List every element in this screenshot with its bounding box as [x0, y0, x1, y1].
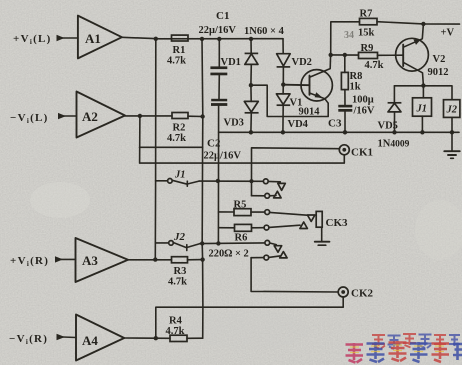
- transistor V1: [285, 55, 333, 118]
- wire C2 bottom vertical down to J2 row: [217, 106, 219, 244]
- watermark logo: [346, 333, 462, 363]
- wire row6 down to CK2 center: [251, 258, 338, 292]
- input +Vi(L): [13, 33, 78, 46]
- contact row 6 wire: [251, 257, 264, 259]
- wire R4 to summing vertical: [187, 337, 203, 339]
- contact row4 circle: [264, 225, 269, 230]
- resistor R9: [359, 43, 384, 71]
- jack CK1: [339, 145, 373, 159]
- node J2 row summing vertical: [200, 241, 204, 245]
- svg-text:A4: A4: [82, 333, 98, 348]
- node V2 emitter top: [421, 22, 425, 26]
- wire row 4: [252, 227, 265, 229]
- svg-text:A2: A2: [82, 109, 98, 124]
- op-amp A1: [78, 16, 122, 59]
- svg-text:VD4: VD4: [288, 119, 309, 130]
- switch J2: [155, 231, 200, 251]
- svg-text:C3: C3: [328, 118, 342, 130]
- svg-text:VD5: VD5: [378, 121, 398, 132]
- svg-text:100μ: 100μ: [352, 95, 374, 106]
- svg-text:R9: R9: [361, 43, 374, 54]
- capacitor C1: [210, 39, 227, 99]
- resistor R1: [167, 35, 188, 66]
- svg-text:4.7k: 4.7k: [168, 277, 187, 288]
- contact row6 circle: [264, 255, 269, 260]
- node A1 out: [154, 37, 158, 41]
- diode VD5: [378, 86, 410, 150]
- svg-text:4.7k: 4.7k: [166, 326, 185, 337]
- resistor R3: [168, 257, 188, 288]
- transistor V2: [396, 24, 449, 86]
- svg-text:+V: +V: [441, 28, 455, 39]
- wire A2 branch down: [140, 116, 345, 163]
- node VD2-VD4 junction: [281, 82, 285, 86]
- svg-text:J2: J2: [173, 231, 186, 243]
- svg-text:1N60 × 4: 1N60 × 4: [244, 26, 285, 37]
- node rail J2: [450, 130, 454, 134]
- wire contact row 1: [199, 180, 263, 182]
- input -Vi(L): [10, 112, 77, 125]
- node rail J1: [420, 130, 424, 134]
- wire R9 row: [331, 54, 359, 56]
- switch J1: [156, 170, 199, 187]
- svg-text:4.7k: 4.7k: [167, 133, 186, 144]
- svg-text:/16V: /16V: [353, 106, 375, 117]
- node A3 out: [153, 257, 157, 261]
- wire CK2 shell loop to A4 node: [156, 297, 343, 338]
- node A4 out: [154, 336, 158, 340]
- op-amp A3: [76, 238, 129, 282]
- op-amp A4: [76, 315, 124, 361]
- svg-text:−Vi(R): −Vi(R): [9, 333, 48, 346]
- resistor R5: [219, 200, 252, 216]
- svg-text:CK3: CK3: [326, 217, 349, 229]
- contact row6 wire and triangle: [269, 252, 287, 258]
- svg-text:9012: 9012: [428, 67, 449, 78]
- node V1 collector top: [329, 53, 333, 57]
- wire A3 output row: [128, 259, 172, 261]
- contact row3 long wire and triangle: [270, 212, 315, 221]
- svg-text:VD2: VD2: [292, 57, 312, 68]
- contact row1 wire and triangle: [268, 181, 285, 190]
- resistor R8: [341, 55, 362, 93]
- svg-text:R2: R2: [173, 123, 186, 134]
- resistor R6: [219, 224, 252, 243]
- relay coil J1: [413, 86, 432, 133]
- wire R7 left down to V1 collector: [331, 22, 360, 55]
- op-amp A2: [77, 92, 126, 138]
- svg-text:+Vi(R): +Vi(R): [10, 255, 49, 268]
- node R2 right: [200, 114, 204, 118]
- svg-text:−Vi(L): −Vi(L): [10, 112, 49, 125]
- ground rail: [219, 131, 459, 133]
- contact row5 wire and triangle: [270, 243, 282, 252]
- node J2 row ground vertical: [216, 241, 220, 245]
- contact row4 wire and triangle: [269, 222, 308, 229]
- svg-text:34: 34: [344, 30, 354, 41]
- wire R2 to summing vertical: [188, 115, 203, 117]
- wire R3 to summing vertical: [188, 259, 203, 261]
- svg-text:22μ/16V: 22μ/16V: [199, 25, 237, 36]
- svg-text:R7: R7: [360, 9, 373, 20]
- input +Vi(R): [10, 255, 76, 268]
- contact row5 circle: [265, 240, 270, 245]
- diode VD1: [221, 39, 259, 85]
- svg-text:R6: R6: [235, 233, 248, 244]
- diode VD3: [224, 85, 259, 132]
- headphone jack CK3: [315, 211, 348, 245]
- svg-text:A1: A1: [85, 31, 101, 46]
- svg-text:4.7k: 4.7k: [167, 56, 186, 67]
- node rail VD3: [249, 130, 253, 134]
- svg-text:J2: J2: [446, 105, 458, 116]
- wire A1 output row: [122, 37, 283, 39]
- svg-text:R5: R5: [234, 200, 247, 211]
- svg-text:CK1: CK1: [351, 147, 373, 159]
- svg-text:R8: R8: [350, 71, 363, 82]
- node rail VD5: [392, 130, 396, 134]
- wire A4 output row: [124, 337, 170, 339]
- node VD1-VD3 junction: [249, 83, 253, 87]
- node R1-vertical junction: [200, 37, 204, 41]
- wire J2 row / contact row 5: [200, 242, 265, 245]
- svg-text:+Vi(L): +Vi(L): [13, 33, 52, 46]
- svg-text:1N4009: 1N4009: [378, 139, 410, 150]
- node row1 CK1 column: [249, 179, 253, 183]
- jack CK2: [338, 287, 373, 300]
- node A2 out: [138, 114, 142, 118]
- capacitor C2: [204, 99, 242, 162]
- svg-text:220Ω × 2: 220Ω × 2: [209, 249, 249, 260]
- diode VD4: [276, 85, 308, 133]
- svg-text:R1: R1: [173, 45, 186, 56]
- svg-text:22μ/16V: 22μ/16V: [204, 151, 242, 162]
- contact row3 circle: [265, 210, 270, 215]
- wire R9 to V2 base: [378, 54, 404, 56]
- wire A2 output row: [125, 115, 172, 117]
- svg-text:VD3: VD3: [224, 118, 244, 129]
- wire row 3: [251, 211, 265, 213]
- svg-text:15k: 15k: [358, 28, 375, 39]
- svg-text:CK2: CK2: [351, 288, 374, 300]
- wire V2 collector node branches: [394, 86, 452, 100]
- relay coil J2: [444, 100, 460, 133]
- resistor R4: [166, 316, 188, 342]
- svg-text:J1: J1: [174, 170, 186, 181]
- svg-text:C1: C1: [216, 10, 229, 22]
- diode VD2: [277, 39, 312, 85]
- node row1 ground vertical: [216, 179, 220, 183]
- svg-text:9014: 9014: [299, 107, 321, 118]
- resistor R2: [167, 113, 188, 145]
- capacitor C3: [328, 90, 375, 133]
- wire branch to summing vertical: [140, 146, 203, 148]
- svg-text:4.7k: 4.7k: [365, 60, 384, 71]
- svg-text:1k: 1k: [350, 82, 361, 93]
- ground symbol: [444, 132, 459, 158]
- node rail VD4: [281, 130, 285, 134]
- svg-text:R3: R3: [174, 266, 187, 277]
- resistor R7: [358, 9, 377, 39]
- svg-text:A3: A3: [82, 253, 98, 268]
- svg-text:R4: R4: [169, 316, 183, 327]
- node C1 top: [217, 37, 221, 41]
- node R8 top: [343, 53, 347, 57]
- wire CK1 center to contact column: [252, 148, 340, 196]
- node rail C3: [343, 130, 347, 134]
- contact row2 wire and triangle: [270, 191, 282, 198]
- svg-text:VD1: VD1: [221, 57, 241, 68]
- input -Vi(R): [9, 333, 76, 346]
- node R3 right: [200, 257, 204, 261]
- contact row1 circle: [263, 179, 268, 184]
- wire summing vertical (R1 right down to R4): [201, 39, 204, 338]
- node V2 collector: [421, 83, 425, 87]
- svg-text:V2: V2: [433, 54, 446, 65]
- svg-text:J1: J1: [416, 104, 428, 115]
- node VD1 top: [249, 37, 253, 41]
- wire +V top rail: [377, 22, 460, 24]
- wire VD1 junction jog to V1 emitter: [251, 85, 328, 116]
- contact row 2 wire: [252, 195, 265, 197]
- contact row2 circle: [265, 193, 270, 198]
- wire left long vertical (A1 out to A3 out): [154, 39, 157, 260]
